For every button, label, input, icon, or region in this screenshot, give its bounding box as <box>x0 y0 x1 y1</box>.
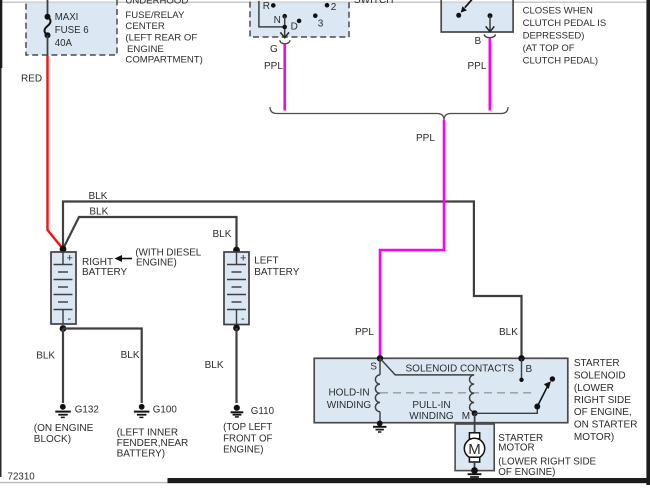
wire BLK to G110 <box>235 328 237 403</box>
left border line <box>0 0 2 68</box>
svg-text:G132: G132 <box>75 405 99 416</box>
starter motor box <box>455 424 494 471</box>
svg-text:CLUTCH PEDAL): CLUTCH PEDAL) <box>523 56 599 67</box>
label WITH DIESEL ENGINE <box>135 248 201 269</box>
right border line <box>646 0 650 485</box>
svg-text:BATTERY: BATTERY <box>254 267 300 278</box>
svg-text:(ON ENGINE: (ON ENGINE <box>34 423 94 434</box>
wire S to pull-in winding <box>380 358 474 375</box>
svg-text:(AT TOP OF: (AT TOP OF <box>523 43 575 54</box>
wire BLK battery to solenoid B <box>63 202 522 358</box>
battery left <box>224 252 249 325</box>
svg-text:G110: G110 <box>251 406 275 417</box>
label LEFT INNER FENDER NEAR BATTERY <box>117 428 189 460</box>
svg-text:2: 2 <box>331 2 337 13</box>
svg-text:OF ENGINE): OF ENGINE) <box>498 467 555 478</box>
connector bump B (clutch) <box>484 34 495 37</box>
svg-text:R: R <box>263 1 270 12</box>
label STARTER SOLENOID (right) <box>574 358 638 443</box>
svg-text:PULL-IN: PULL-IN <box>412 400 450 411</box>
PN switch arrow to G <box>280 16 289 38</box>
contact arm with arrow <box>534 376 555 409</box>
ground G100 <box>134 404 150 418</box>
clutch pedal switch box <box>441 2 513 32</box>
arrow (with diesel) <box>115 255 133 262</box>
svg-text:RED: RED <box>21 74 42 85</box>
svg-text:-: - <box>241 313 245 325</box>
svg-text:FENDER,NEAR: FENDER,NEAR <box>117 438 189 449</box>
svg-text:SOLENOID CONTACTS: SOLENOID CONTACTS <box>406 364 515 375</box>
wire RED fuse to battery junction <box>48 56 64 250</box>
svg-text:SOLENOID: SOLENOID <box>574 371 626 382</box>
svg-text:WINDING: WINDING <box>327 400 372 411</box>
svg-text:PPL: PPL <box>416 133 435 144</box>
svg-text:BATTERY): BATTERY) <box>117 449 166 460</box>
svg-text:MOTOR: MOTOR <box>498 443 534 454</box>
battery right <box>51 252 76 325</box>
svg-text:CLOSES WHEN: CLOSES WHEN <box>523 6 593 17</box>
svg-text:3: 3 <box>318 19 324 30</box>
svg-text:FUSE 6: FUSE 6 <box>55 25 89 36</box>
svg-text:MOTOR): MOTOR) <box>574 432 614 443</box>
svg-text:N: N <box>274 15 281 26</box>
svg-text:PPL: PPL <box>468 61 487 72</box>
svg-text:SWITCH: SWITCH <box>354 0 393 6</box>
svg-text:ON STARTER: ON STARTER <box>574 420 638 431</box>
svg-text:M: M <box>468 441 481 458</box>
svg-text:STARTER: STARTER <box>574 358 620 369</box>
svg-text:DEPRESSED): DEPRESSED) <box>523 31 585 42</box>
maxi fuse 6 element <box>45 14 51 39</box>
svg-text:-: - <box>68 313 72 325</box>
label LEFT BATTERY <box>254 256 300 279</box>
svg-text:72310: 72310 <box>8 471 36 482</box>
brace joining PPL wires <box>270 107 508 120</box>
svg-text:B: B <box>475 36 482 47</box>
svg-text:FRONT OF: FRONT OF <box>223 433 272 444</box>
wire fuse bottom <box>47 35 49 55</box>
svg-text:RIGHT SIDE: RIGHT SIDE <box>574 395 631 406</box>
svg-text:G: G <box>270 44 278 55</box>
svg-text:ENGINE): ENGINE) <box>136 258 177 269</box>
svg-text:S: S <box>370 362 377 373</box>
svg-text:BLK: BLK <box>89 191 108 202</box>
svg-text:(LEFT REAR OF: (LEFT REAR OF <box>125 32 197 43</box>
park/neutral position switch box <box>250 0 349 37</box>
svg-text:BLK: BLK <box>36 351 55 362</box>
label RIGHT BATTERY <box>82 257 128 278</box>
svg-text:D: D <box>291 22 298 33</box>
starter motor symbol <box>464 433 484 462</box>
svg-text:FUSE/RELAY: FUSE/RELAY <box>125 10 185 21</box>
svg-text:BLK: BLK <box>121 350 140 361</box>
svg-text:OF ENGINE,: OF ENGINE, <box>574 407 632 418</box>
junction dot S <box>377 355 383 361</box>
svg-text:(LOWER: (LOWER <box>574 383 614 394</box>
svg-text:B: B <box>526 364 533 375</box>
ground G110 <box>231 405 244 417</box>
wire M to starter motor <box>474 413 476 434</box>
svg-text:MAXI: MAXI <box>55 12 79 23</box>
clutch switch contacts <box>456 0 494 32</box>
ground under starter motor <box>468 467 482 480</box>
underhood fuse/relay center box <box>26 0 117 55</box>
pull-in winding coil <box>470 375 475 412</box>
label HOLD-IN WINDING <box>327 388 372 412</box>
starter solenoid box <box>314 358 568 422</box>
label CLOSES WHEN CLUTCH PEDAL <box>523 6 607 67</box>
svg-text:G100: G100 <box>153 405 178 416</box>
wire PPL from G to brace <box>283 44 286 111</box>
wire BLK to G132 <box>62 329 64 404</box>
svg-text:CENTER: CENTER <box>125 21 165 32</box>
svg-text:UNDERHOOD: UNDERHOOD <box>125 0 188 7</box>
PN switch wiper wire <box>259 1 285 27</box>
svg-text:HOLD-IN: HOLD-IN <box>328 388 369 399</box>
label PULL-IN WINDING <box>409 400 454 422</box>
svg-text:40A: 40A <box>55 38 73 49</box>
label STARTER MOTOR (right) <box>498 433 596 478</box>
wire PPL main to solenoid S <box>380 120 444 357</box>
svg-text:+: + <box>240 253 246 265</box>
label ON ENGINE BLOCK <box>34 423 94 445</box>
svg-text:CLUTCH PEDAL IS: CLUTCH PEDAL IS <box>523 18 607 29</box>
svg-text:ENGINE): ENGINE) <box>223 445 263 456</box>
junction dot right battery bottom <box>60 325 67 332</box>
label MAXI FUSE 6 40A <box>55 12 89 49</box>
ground G132 <box>55 404 71 418</box>
svg-text:+: + <box>67 253 73 265</box>
hold-in winding coil <box>375 358 380 422</box>
PN switch contacts R 2 N D 3 <box>263 1 337 33</box>
wire PPL from B to brace <box>488 38 491 110</box>
label TOP LEFT FRONT OF ENGINE <box>223 422 272 456</box>
svg-text:BATTERY: BATTERY <box>82 267 128 278</box>
svg-text:COMPARTMENT): COMPARTMENT) <box>125 55 202 66</box>
ground under solenoid <box>373 421 386 433</box>
svg-text:BLK: BLK <box>499 327 518 338</box>
svg-text:PPL: PPL <box>355 327 374 338</box>
wire fuse top <box>47 0 49 17</box>
svg-text:BLK: BLK <box>213 229 232 240</box>
bottom gray rule <box>0 482 168 484</box>
svg-text:LEFT: LEFT <box>254 256 278 267</box>
svg-text:M: M <box>462 411 470 422</box>
junction dot left battery top <box>233 247 240 254</box>
svg-text:BLK: BLK <box>89 207 108 218</box>
top edge gray line <box>0 1 646 3</box>
junction dot left battery bottom <box>233 325 240 332</box>
wire motor to ground <box>474 462 476 471</box>
svg-text:WINDING: WINDING <box>409 411 454 422</box>
label UNDERHOOD FUSE/RELAY CENTER <box>125 0 202 66</box>
connector bump G <box>280 40 290 44</box>
junction dot M <box>472 410 478 416</box>
svg-text:BLOCK): BLOCK) <box>34 434 71 445</box>
wire BLK to G100 <box>63 329 142 404</box>
B fixed contact <box>519 358 523 382</box>
wire BLK battery to battery <box>63 217 237 249</box>
svg-text:BLK: BLK <box>205 360 224 371</box>
junction dot B (solenoid) <box>518 355 524 361</box>
mechanical linkage dashed line <box>380 392 536 394</box>
svg-text:PPL: PPL <box>264 61 283 72</box>
svg-text:(TOP LEFT: (TOP LEFT <box>223 422 272 433</box>
bottom black bar <box>168 478 650 483</box>
svg-text:ENGINE: ENGINE <box>127 44 164 55</box>
junction dot right battery top <box>60 246 67 253</box>
wire M to contact arm <box>475 407 538 413</box>
svg-text:(LEFT INNER: (LEFT INNER <box>117 428 179 439</box>
